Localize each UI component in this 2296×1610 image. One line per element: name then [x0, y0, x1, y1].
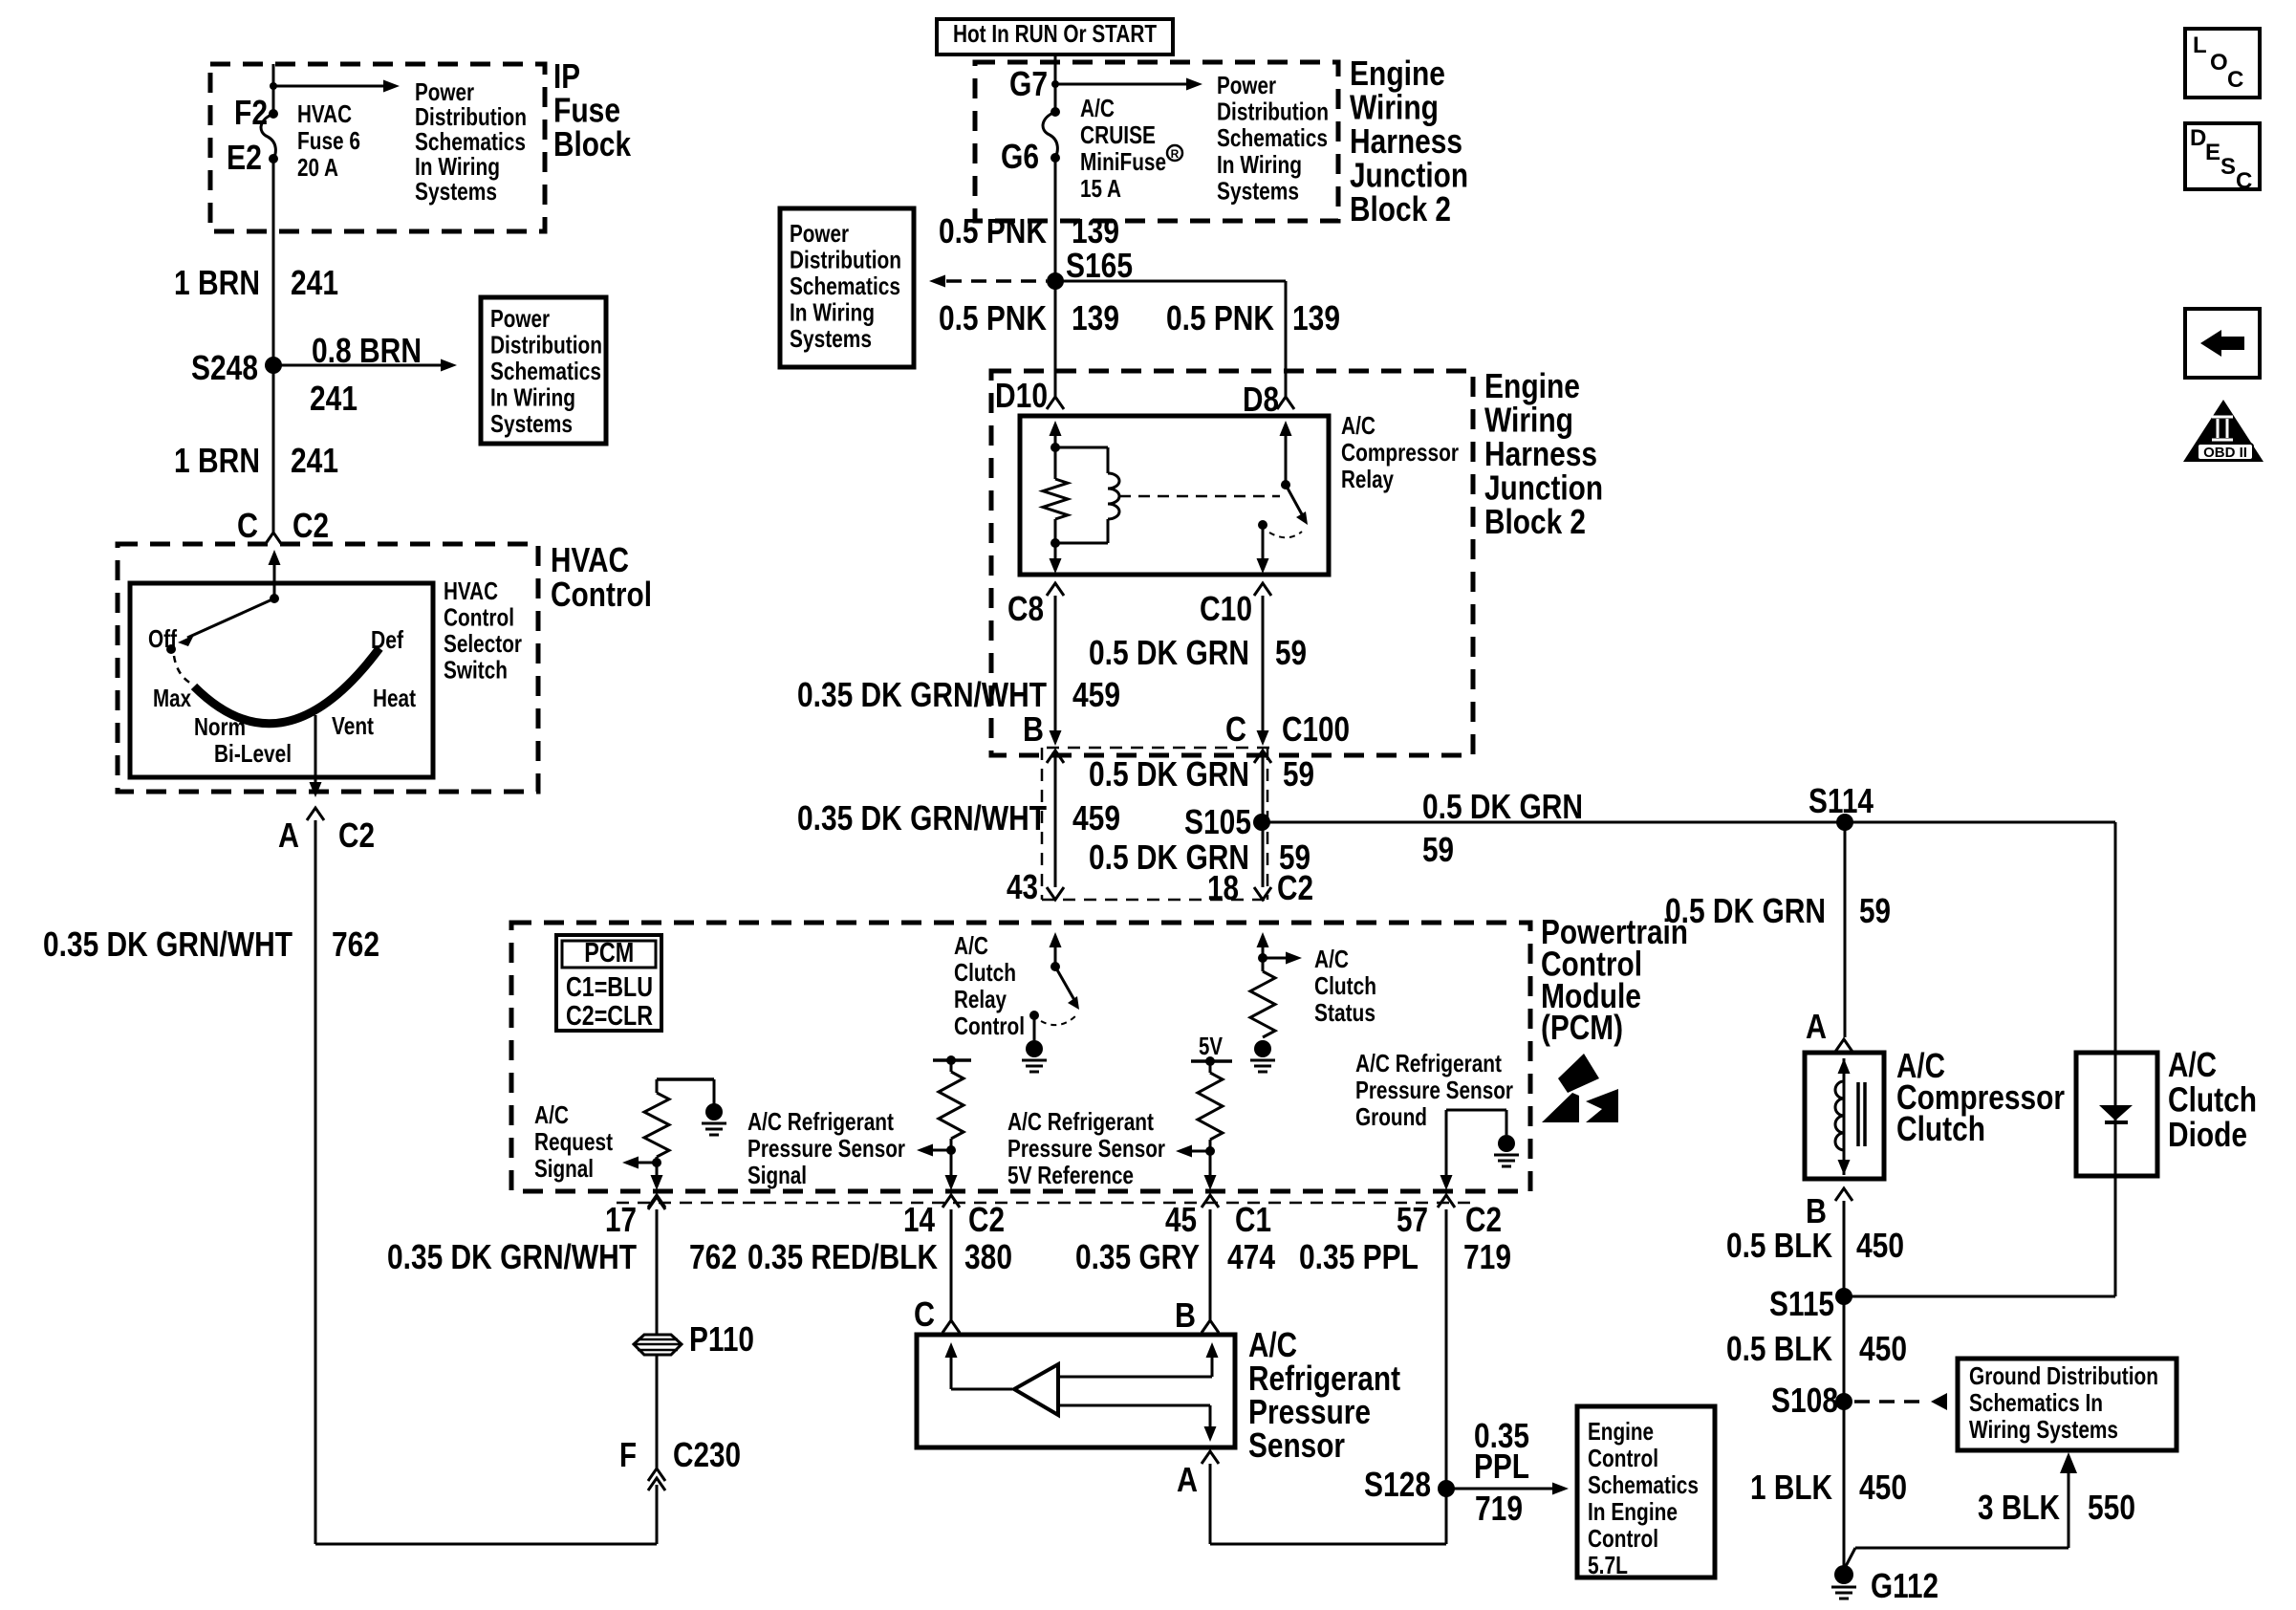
svg-text:A: A [1177, 1460, 1198, 1499]
svg-text:G6: G6 [1001, 137, 1039, 176]
svg-text:C2: C2 [1465, 1200, 1502, 1239]
svg-text:450: 450 [1859, 1468, 1907, 1507]
svg-text:380: 380 [964, 1237, 1012, 1276]
svg-text:0.35 PPL: 0.35 PPL [1299, 1237, 1419, 1276]
svg-text:550: 550 [2088, 1488, 2135, 1527]
svg-text:59: 59 [1275, 633, 1307, 672]
svg-text:241: 241 [291, 263, 338, 302]
svg-text:Control: Control [1588, 1524, 1658, 1553]
svg-text:0.35 RED/BLK: 0.35 RED/BLK [747, 1237, 938, 1276]
svg-text:14: 14 [903, 1200, 935, 1239]
svg-text:0.5 BLK: 0.5 BLK [1726, 1329, 1832, 1368]
svg-text:Pressure Sensor: Pressure Sensor [1007, 1134, 1165, 1163]
svg-text:Block 2: Block 2 [1484, 502, 1586, 541]
svg-text:S114: S114 [1809, 781, 1874, 820]
svg-text:Schematics: Schematics [1588, 1470, 1699, 1499]
svg-text:In Wiring: In Wiring [490, 383, 575, 412]
svg-text:Switch: Switch [444, 656, 508, 685]
svg-text:Compressor: Compressor [1341, 438, 1459, 467]
svg-text:F: F [619, 1435, 637, 1474]
svg-text:C230: C230 [673, 1435, 741, 1474]
svg-text:C8: C8 [1007, 589, 1044, 628]
svg-text:Distribution: Distribution [1217, 98, 1329, 126]
svg-text:A/C Refrigerant: A/C Refrigerant [747, 1107, 894, 1136]
svg-text:G112: G112 [1871, 1566, 1939, 1605]
svg-text:A: A [1806, 1007, 1827, 1046]
svg-text:C2: C2 [968, 1200, 1005, 1239]
svg-text:5V: 5V [1199, 1032, 1224, 1060]
svg-text:0.5 DK GRN: 0.5 DK GRN [1665, 891, 1826, 930]
svg-text:Ground: Ground [1355, 1102, 1427, 1131]
svg-text:Diode: Diode [2168, 1115, 2247, 1154]
svg-text:Signal: Signal [534, 1154, 594, 1183]
svg-text:Power: Power [1217, 71, 1276, 99]
svg-text:L: L [2193, 33, 2207, 58]
svg-text:Request: Request [534, 1127, 613, 1156]
svg-text:Control: Control [444, 603, 514, 632]
svg-text:0.5 DK GRN: 0.5 DK GRN [1089, 754, 1249, 794]
svg-text:0.35 DK GRN/WHT: 0.35 DK GRN/WHT [387, 1237, 637, 1276]
svg-text:Selector: Selector [444, 629, 522, 658]
svg-text:Heat: Heat [373, 684, 416, 712]
svg-text:C: C [2227, 67, 2243, 93]
svg-text:In Wiring: In Wiring [790, 298, 875, 327]
svg-text:PPL: PPL [1474, 1447, 1529, 1486]
svg-text:Distribution: Distribution [790, 246, 901, 274]
svg-text:474: 474 [1227, 1237, 1275, 1276]
svg-text:Norm: Norm [194, 712, 246, 741]
svg-text:MiniFuse: MiniFuse [1080, 147, 1166, 176]
svg-text:241: 241 [291, 441, 338, 480]
svg-text:Block: Block [553, 124, 632, 163]
svg-text:S108: S108 [1771, 1381, 1838, 1420]
svg-text:Power: Power [490, 304, 550, 333]
svg-text:In Wiring: In Wiring [1217, 150, 1302, 179]
svg-text:Systems: Systems [415, 177, 497, 206]
svg-text:B: B [1806, 1191, 1827, 1230]
svg-text:C: C [914, 1295, 935, 1334]
svg-text:Schematics In: Schematics In [1969, 1388, 2103, 1417]
svg-text:Control: Control [551, 575, 652, 614]
svg-text:450: 450 [1856, 1226, 1904, 1265]
svg-text:CRUISE: CRUISE [1080, 120, 1156, 149]
svg-text:0.5 DK GRN: 0.5 DK GRN [1089, 633, 1249, 672]
svg-text:59: 59 [1283, 754, 1314, 794]
svg-text:18: 18 [1207, 868, 1239, 907]
svg-text:Signal: Signal [747, 1161, 807, 1189]
svg-text:D8: D8 [1243, 380, 1279, 419]
svg-text:D10: D10 [995, 376, 1048, 415]
svg-text:0.35 DK GRN/WHT: 0.35 DK GRN/WHT [797, 798, 1047, 838]
svg-text:Pressure Sensor: Pressure Sensor [747, 1134, 905, 1163]
svg-text:719: 719 [1463, 1237, 1511, 1276]
svg-text:C2=CLR: C2=CLR [566, 1001, 653, 1032]
svg-text:O: O [2210, 50, 2228, 76]
svg-text:5.7L: 5.7L [1588, 1551, 1628, 1579]
svg-text:B: B [1175, 1295, 1196, 1335]
svg-text:S248: S248 [191, 348, 258, 387]
svg-text:Clutch: Clutch [1896, 1109, 1985, 1148]
svg-text:Clutch: Clutch [2168, 1080, 2257, 1120]
svg-text:E2: E2 [227, 138, 262, 177]
svg-text:0.8 BRN: 0.8 BRN [312, 331, 422, 370]
svg-text:S: S [2220, 154, 2236, 180]
svg-text:Max: Max [153, 684, 191, 712]
svg-text:E: E [2205, 140, 2220, 165]
svg-text:D: D [2190, 125, 2206, 151]
svg-text:Relay: Relay [1341, 465, 1394, 493]
svg-text:Schematics: Schematics [790, 272, 900, 300]
svg-text:Def: Def [371, 625, 403, 654]
svg-text:0.5 PNK: 0.5 PNK [1166, 298, 1274, 337]
svg-text:G7: G7 [1009, 64, 1048, 103]
svg-text:5V Reference: 5V Reference [1007, 1161, 1134, 1189]
svg-text:A/C Refrigerant: A/C Refrigerant [1355, 1049, 1502, 1077]
svg-text:A/C: A/C [1080, 94, 1115, 122]
svg-text:Control: Control [954, 1012, 1025, 1040]
svg-text:Wiring Systems: Wiring Systems [1969, 1415, 2118, 1444]
svg-text:(PCM): (PCM) [1541, 1008, 1623, 1047]
svg-text:Sensor: Sensor [1248, 1425, 1345, 1465]
svg-text:Fuse 6: Fuse 6 [297, 126, 360, 155]
svg-text:A: A [278, 816, 299, 855]
svg-text:A/C: A/C [1314, 945, 1349, 973]
svg-text:Power: Power [790, 219, 849, 248]
svg-text:Bi-Level: Bi-Level [214, 739, 292, 768]
svg-text:HVAC: HVAC [551, 540, 629, 579]
svg-text:0.5 DK GRN: 0.5 DK GRN [1422, 787, 1583, 826]
svg-text:1 BRN: 1 BRN [174, 441, 260, 480]
svg-text:C2: C2 [1277, 868, 1313, 907]
svg-text:A/C: A/C [1341, 411, 1375, 440]
svg-text:Systems: Systems [790, 324, 872, 353]
svg-text:Control: Control [1588, 1444, 1658, 1472]
svg-text:Schematics: Schematics [490, 357, 601, 385]
svg-text:C10: C10 [1200, 589, 1252, 628]
svg-text:59: 59 [1422, 830, 1454, 869]
svg-text:C: C [1225, 709, 1246, 749]
svg-text:HVAC: HVAC [444, 577, 498, 605]
svg-text:0.35 DK GRN/WHT: 0.35 DK GRN/WHT [43, 925, 292, 964]
svg-text:Schematics: Schematics [1217, 123, 1328, 152]
svg-text:A/C Refrigerant: A/C Refrigerant [1007, 1107, 1154, 1136]
svg-text:Engine: Engine [1588, 1417, 1654, 1446]
svg-text:PCM: PCM [584, 938, 634, 968]
svg-text:762: 762 [332, 925, 379, 964]
svg-text:0.35 GRY: 0.35 GRY [1075, 1237, 1200, 1276]
svg-text:139: 139 [1072, 298, 1119, 337]
svg-text:In Engine: In Engine [1588, 1497, 1678, 1526]
svg-text:S165: S165 [1066, 246, 1133, 285]
svg-text:Distribution: Distribution [490, 331, 602, 359]
svg-text:1 BLK: 1 BLK [1750, 1468, 1832, 1507]
svg-text:B: B [1023, 709, 1044, 749]
svg-text:459: 459 [1072, 798, 1120, 838]
svg-text:S105: S105 [1184, 802, 1251, 841]
svg-text:C: C [2236, 168, 2252, 194]
svg-text:Status: Status [1314, 998, 1375, 1027]
svg-text:A/C: A/C [2168, 1045, 2217, 1084]
svg-text:F2: F2 [234, 93, 268, 132]
svg-text:C100: C100 [1282, 709, 1350, 749]
svg-text:C1=BLU: C1=BLU [566, 972, 653, 1003]
svg-text:Block 2: Block 2 [1350, 189, 1451, 228]
svg-text:C2: C2 [292, 506, 329, 545]
svg-text:Pressure Sensor: Pressure Sensor [1355, 1076, 1513, 1104]
svg-text:45: 45 [1165, 1200, 1197, 1239]
svg-text:0.5 PNK: 0.5 PNK [939, 211, 1047, 250]
svg-text:Systems: Systems [490, 409, 573, 438]
svg-text:3 BLK: 3 BLK [1978, 1488, 2060, 1527]
svg-text:Systems: Systems [1217, 176, 1299, 205]
svg-text:43: 43 [1007, 867, 1038, 906]
svg-text:719: 719 [1475, 1489, 1523, 1528]
svg-text:Hot In RUN Or START: Hot In RUN Or START [953, 19, 1157, 48]
svg-text:Vent: Vent [332, 711, 374, 740]
svg-text:241: 241 [310, 379, 357, 418]
svg-text:1 BRN: 1 BRN [174, 263, 260, 302]
svg-text:Clutch: Clutch [1314, 971, 1376, 1000]
svg-text:Ground Distribution: Ground Distribution [1969, 1361, 2158, 1390]
svg-text:762: 762 [689, 1237, 737, 1276]
svg-text:A/C: A/C [534, 1100, 569, 1129]
svg-text:C1: C1 [1235, 1200, 1271, 1239]
svg-text:Relay: Relay [954, 985, 1007, 1013]
svg-text:Clutch: Clutch [954, 958, 1016, 987]
svg-text:0.35 DK GRN/WHT: 0.35 DK GRN/WHT [797, 675, 1047, 714]
svg-text:S128: S128 [1364, 1465, 1431, 1504]
svg-text:20 A: 20 A [297, 153, 338, 182]
svg-text:57: 57 [1397, 1200, 1428, 1239]
svg-text:Off: Off [148, 624, 177, 653]
svg-text:P110: P110 [689, 1319, 754, 1359]
svg-text:17: 17 [605, 1200, 637, 1239]
svg-text:0.5 PNK: 0.5 PNK [939, 298, 1047, 337]
svg-text:139: 139 [1292, 298, 1340, 337]
svg-text:C: C [237, 506, 258, 545]
svg-text:15 A: 15 A [1080, 174, 1121, 203]
svg-text:C2: C2 [338, 816, 375, 855]
svg-text:A/C: A/C [954, 931, 988, 960]
svg-text:59: 59 [1859, 891, 1891, 930]
svg-text:R: R [1171, 147, 1180, 161]
svg-text:139: 139 [1072, 211, 1119, 250]
svg-text:HVAC: HVAC [297, 99, 352, 128]
svg-text:459: 459 [1072, 675, 1120, 714]
svg-text:OBD II: OBD II [2203, 445, 2247, 461]
svg-text:0.5 BLK: 0.5 BLK [1726, 1226, 1832, 1265]
svg-text:450: 450 [1859, 1329, 1907, 1368]
svg-text:S115: S115 [1769, 1284, 1834, 1323]
